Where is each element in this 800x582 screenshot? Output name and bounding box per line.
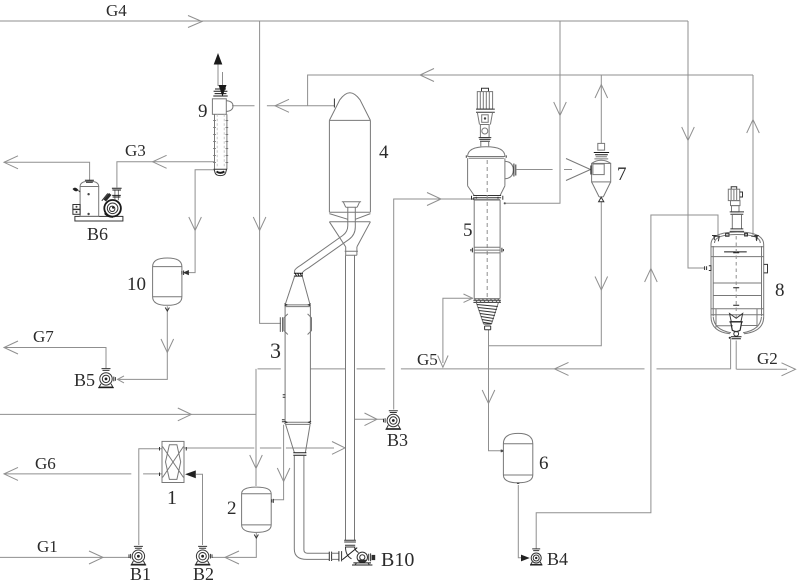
svg-text:9: 9 xyxy=(198,101,208,122)
wire G4 header xyxy=(0,16,688,28)
wire G6 out xyxy=(4,467,162,480)
svg-text:G1: G1 xyxy=(37,537,58,556)
pump B3 xyxy=(384,411,402,430)
wire main feed line xyxy=(0,408,256,421)
vessel 6 xyxy=(501,433,533,483)
wire exchanger 1 outlet to downpipe xyxy=(184,442,345,455)
svg-text:G2: G2 xyxy=(757,349,778,368)
wire B5 discharge G7 xyxy=(4,341,106,368)
svg-text:B5: B5 xyxy=(74,370,95,390)
svg-text:B2: B2 xyxy=(193,564,214,582)
wire down leg to vessel 2 xyxy=(250,369,263,486)
wire B6 tank vent out left xyxy=(4,156,90,180)
wire vapor header to condenser 9 xyxy=(308,69,753,106)
wire G3 condensate to B6 xyxy=(117,155,215,187)
svg-text:10: 10 xyxy=(127,274,146,295)
wire B3 discharge to vessel 5 xyxy=(394,193,475,410)
wire vessel 5 bottom outlet to vessel 6 xyxy=(482,330,501,451)
pump B4 xyxy=(530,549,542,565)
condenser 9 xyxy=(212,53,233,176)
column 3 xyxy=(280,276,311,455)
svg-text:G4: G4 xyxy=(106,1,127,20)
wire vessel 6 bottom to B4 xyxy=(518,485,528,561)
wire G1 feed to B1 xyxy=(0,551,130,564)
node column 4 top nozzle xyxy=(333,99,335,108)
wire G5 header xyxy=(258,294,731,375)
svg-text:B3: B3 xyxy=(387,430,408,450)
wire G4 branch to vessel 5 xyxy=(504,21,567,204)
svg-text:1: 1 xyxy=(167,487,177,509)
pipe from funnel of 4 to column 3 xyxy=(294,207,355,276)
svg-text:7: 7 xyxy=(617,164,627,185)
wire B2 riser to exchanger 1 xyxy=(186,471,202,545)
svg-text:5: 5 xyxy=(463,220,473,241)
svg-text:G5: G5 xyxy=(417,350,438,369)
cyclone 7 xyxy=(591,143,611,201)
pump B5 xyxy=(98,369,115,388)
svg-text:B4: B4 xyxy=(547,549,568,569)
vacuum unit B6 xyxy=(73,180,123,221)
pump B2 xyxy=(195,546,212,565)
vessel 10 xyxy=(153,258,184,305)
wire overhead line into condenser 9 xyxy=(232,99,334,112)
svg-text:2: 2 xyxy=(227,498,237,519)
heat exchanger 1 xyxy=(160,441,187,482)
svg-text:B1: B1 xyxy=(130,564,151,582)
wire column 3 side drain to vessel 2 xyxy=(273,425,290,500)
wire tap to B3 xyxy=(355,413,384,426)
line vessel 5 nozzle to cyclone 7 xyxy=(517,159,591,181)
wire reactor 8 vapor riser xyxy=(747,75,760,235)
column 4 xyxy=(329,93,370,256)
wire cyclone 7 underflow xyxy=(489,201,608,345)
svg-text:8: 8 xyxy=(775,280,785,301)
reactor 8 xyxy=(705,187,768,339)
svg-text:4: 4 xyxy=(379,142,389,163)
wire cyclone 7 vent riser xyxy=(595,75,608,143)
pump B1 xyxy=(129,546,146,565)
svg-text:6: 6 xyxy=(539,453,549,474)
svg-text:G6: G6 xyxy=(35,454,56,473)
svg-text:G3: G3 xyxy=(125,141,146,160)
svg-text:B6: B6 xyxy=(87,224,108,244)
wire vessel 2 bottom to B2 xyxy=(212,533,259,564)
wire vessel 10 bottom to B5 xyxy=(118,306,174,383)
vessel 5 with agitator xyxy=(466,88,516,329)
svg-text:3: 3 xyxy=(270,338,281,363)
svg-text:G7: G7 xyxy=(33,327,54,346)
wire B1 discharge to exchanger 1 xyxy=(139,449,162,545)
wire B4 discharge to reactor 8 xyxy=(536,215,718,549)
pump B10 xyxy=(342,547,375,565)
vessel 2 xyxy=(242,487,274,532)
wire G4 to reactor 8 left nozzle xyxy=(682,21,705,268)
wire G4 branch to column 3 side nozzle xyxy=(253,21,281,323)
wire condenser 9 drain to vessel 10 xyxy=(184,170,215,275)
wire reactor 8 bottom outlet to G2 header xyxy=(731,339,737,369)
svg-text:B10: B10 xyxy=(381,549,414,571)
downpipe from column 4 to B10 xyxy=(344,255,356,547)
downpipe from column 3 with elbow to B10 xyxy=(294,456,341,562)
wire G2 product line xyxy=(736,363,795,376)
